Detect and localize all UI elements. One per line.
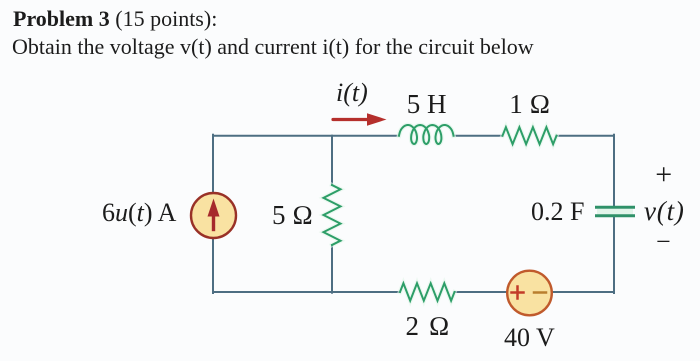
wire bottom left segment (213, 291, 400, 293)
heading line 1 (13, 6, 217, 32)
voltage source plus sign (512, 287, 524, 299)
label 0.2 F (531, 197, 584, 227)
wire bottom right segment (552, 291, 615, 293)
label plus polarity (655, 158, 672, 192)
resistor 1-ohm zigzag (503, 127, 557, 144)
current direction arrow for i(t) (333, 113, 387, 126)
label v(t) (644, 196, 685, 227)
label 5 ohm (272, 200, 313, 231)
wire left lower (below current source) (212, 238, 214, 293)
wire bottom middle segment (455, 291, 508, 293)
inductor 5H halo (399, 125, 454, 144)
label i(t) (336, 78, 368, 108)
wire left upper (above current source) (212, 135, 214, 194)
resistor 5-ohm zigzag (324, 185, 341, 245)
voltage source circle (507, 271, 552, 316)
capacitor 0.2F top plate (597, 206, 634, 209)
label 1 ohm (509, 89, 550, 120)
label 2 ohm (406, 311, 452, 342)
inductor 5H coil (399, 125, 454, 144)
resistor 5-ohm halo (324, 185, 341, 245)
wire top-right segment (557, 135, 615, 137)
capacitor 0.2F bottom plate (597, 214, 634, 217)
voltage source minus sign (534, 291, 546, 294)
label 40 V (504, 323, 555, 353)
wire right upper (to capacitor) (613, 135, 615, 206)
wire right lower (from capacitor) (613, 217, 615, 293)
label 6u(t) A (102, 198, 176, 228)
resistor 2-ohm halo (400, 283, 455, 300)
wire middle vertical upper (331, 136, 333, 185)
capacitor 0.2F mint gap fill (597, 209, 633, 215)
resistor 1-ohm halo (503, 127, 557, 144)
current source arrow (208, 199, 220, 230)
wire top between inductor and 1-ohm resistor (454, 135, 503, 137)
wire top-left segment (213, 135, 399, 137)
wire middle vertical lower (331, 245, 333, 293)
current source circle (191, 193, 236, 238)
label minus polarity (656, 227, 671, 257)
heading line 2 (12, 34, 534, 60)
label 5 H (407, 89, 447, 120)
resistor 2-ohm zigzag (400, 283, 455, 300)
